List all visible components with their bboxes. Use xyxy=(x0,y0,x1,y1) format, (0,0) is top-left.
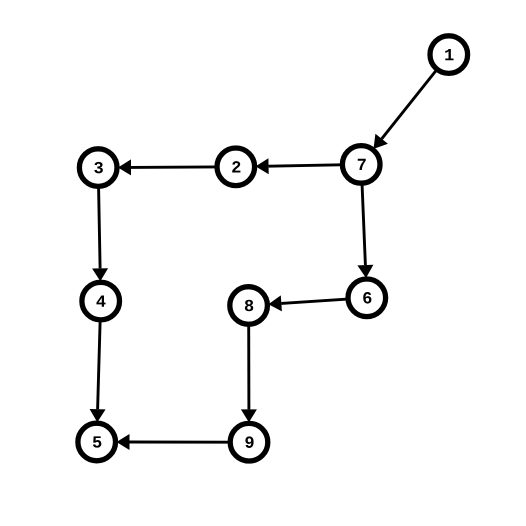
node 6 xyxy=(348,279,386,317)
edge 6 to 8 xyxy=(268,295,345,311)
edge 2 to 3 xyxy=(118,159,215,175)
node 3 xyxy=(79,149,117,187)
edge 1 to 7 xyxy=(374,71,436,149)
node 7 xyxy=(342,146,380,184)
node 4 xyxy=(82,282,120,320)
edge 4 to 5 xyxy=(90,322,106,422)
node 1 xyxy=(430,36,468,74)
edge 7 to 6 xyxy=(357,185,373,278)
edge 9 to 5 xyxy=(117,434,229,450)
node 2 xyxy=(217,148,255,186)
edge 8 to 9 xyxy=(241,327,257,423)
node 9 xyxy=(230,423,268,461)
node 8 xyxy=(230,287,268,325)
node 5 xyxy=(78,423,116,461)
edge 7 to 2 xyxy=(256,158,341,174)
edge 3 to 4 xyxy=(92,189,108,282)
